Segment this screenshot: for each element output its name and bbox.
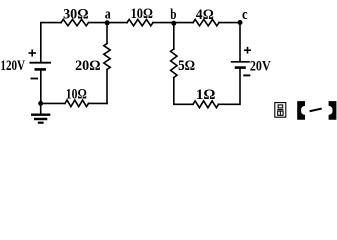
battery V2 plus sign — [244, 47, 251, 54]
wire node b down to 5Ω — [173, 23, 175, 49]
svg-text:c: c — [242, 7, 248, 23]
ground — [31, 103, 50, 122]
wire node c down to battery V2 — [239, 23, 241, 61]
svg-text:20Ω: 20Ω — [75, 58, 100, 74]
svg-text:10Ω: 10Ω — [131, 6, 153, 22]
battery V2 minus sign — [243, 74, 250, 76]
caption 】 bracket — [329, 101, 337, 120]
wire 20Ω down to bottom corner — [106, 70, 108, 104]
wire 30Ω to node a — [89, 22, 108, 24]
battery V1 120V long plate — [30, 62, 52, 64]
resistor R1 30Ω — [61, 19, 89, 25]
resistor R3 4Ω — [193, 19, 219, 25]
svg-text:4Ω: 4Ω — [196, 7, 214, 23]
wire battery V1 down to ground junction — [40, 71, 42, 104]
wire 1Ω to bottom-right corner — [219, 69, 241, 105]
svg-text:b: b — [170, 7, 176, 23]
wire 10Ω to node b — [153, 22, 174, 24]
svg-text:5Ω: 5Ω — [178, 58, 195, 74]
node b junction dot — [171, 21, 176, 26]
node a junction dot — [105, 20, 110, 25]
svg-text:1Ω: 1Ω — [196, 87, 216, 103]
wire node b to 4Ω — [174, 22, 193, 24]
wire top-left (corner to 30Ω) — [41, 23, 61, 62]
svg-text:20V: 20V — [250, 58, 271, 74]
wire 10Ω bottom to corner below 20Ω — [89, 102, 108, 104]
wire node a down to 20Ω — [106, 23, 108, 44]
caption 【 bracket — [297, 101, 305, 120]
caption 圖 glyph (drawn) — [275, 103, 286, 118]
resistor R7 1Ω (bottom) — [193, 101, 219, 108]
wire bottom-left (junction to 10Ω) — [41, 102, 65, 104]
resistor R6 5Ω (vertical) — [171, 49, 177, 78]
caption 一 stroke — [309, 108, 322, 113]
battery V1 120V short plate — [35, 68, 47, 71]
wire node a to 10Ω — [107, 22, 127, 24]
svg-text:10Ω: 10Ω — [66, 86, 87, 102]
svg-text:30Ω: 30Ω — [63, 6, 89, 22]
resistor R5 10Ω (bottom) — [65, 100, 89, 107]
resistor R4 20Ω (vertical) — [104, 44, 110, 70]
svg-text:a: a — [105, 6, 111, 22]
battery V2 20V long plate — [231, 61, 250, 63]
battery V1 minus sign — [31, 78, 39, 80]
battery V1 plus sign — [29, 49, 37, 56]
node c junction dot — [238, 20, 243, 25]
wire 4Ω to node c — [219, 22, 240, 24]
svg-text:120V: 120V — [0, 58, 25, 74]
battery V2 20V short plate — [235, 66, 246, 69]
resistor R2 10Ω (top) — [127, 19, 153, 25]
wire 5Ω down to bottom corner — [174, 78, 193, 105]
ground junction dot — [38, 101, 43, 106]
